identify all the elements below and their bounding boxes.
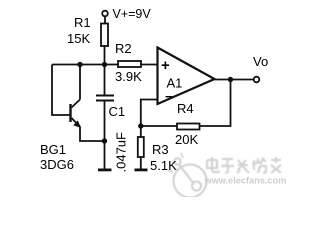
watermark text 电子发烧友: [207, 157, 281, 173]
wire: R4 to output: [200, 80, 231, 127]
svg-text:Vo: Vo: [253, 54, 268, 69]
svg-text:5.1K: 5.1K: [150, 158, 177, 173]
svg-text:R2: R2: [115, 41, 132, 56]
svg-text:www.elecfans.com: www.elecfans.com: [204, 176, 287, 186]
svg-text:−: −: [165, 89, 173, 104]
node: output junction: [228, 77, 233, 82]
wire: feedback run: [141, 125, 177, 127]
wire: left vertical to base: [52, 65, 70, 116]
svg-text:15K: 15K: [67, 31, 90, 46]
terminal Vo: [254, 77, 260, 83]
wire: R3 bottom lead: [140, 157, 142, 169]
wire: R1 bottom lead: [104, 46, 106, 65]
op-amp A1: [158, 48, 215, 105]
node: emitter/C1 junction: [102, 138, 107, 143]
ground (C1): [98, 169, 112, 172]
svg-text:3DG6: 3DG6: [40, 157, 74, 172]
terminal V+: [102, 11, 108, 17]
transistor Q1 BG1: [69, 65, 104, 142]
wire: main horizontal rail: [52, 64, 158, 66]
svg-text:R4: R4: [177, 101, 194, 116]
resistor R4: [177, 124, 200, 130]
resistor R1: [101, 24, 108, 47]
wire: inverting input: [141, 100, 158, 138]
node: R1/C1 junction: [102, 62, 107, 67]
wire: op-amp output: [215, 79, 254, 81]
svg-text:20K: 20K: [175, 132, 198, 147]
resistor R2: [118, 61, 141, 67]
wire: V+ lead: [104, 17, 106, 24]
svg-text:3.9K: 3.9K: [115, 69, 142, 84]
svg-text:V+=9V: V+=9V: [113, 7, 152, 21]
node: feedback junction: [138, 123, 143, 128]
svg-text:.047uF: .047uF: [114, 132, 129, 173]
resistor R3: [138, 137, 144, 157]
watermark logo circle: [168, 153, 207, 198]
svg-text:R1: R1: [74, 15, 91, 30]
svg-text:R3: R3: [152, 142, 169, 157]
svg-text:+: +: [161, 57, 170, 74]
ground (R3): [135, 169, 148, 172]
svg-text:C1: C1: [109, 104, 126, 119]
svg-text:BG1: BG1: [40, 142, 66, 157]
node: collector junction: [77, 62, 82, 67]
capacitor C1: [96, 65, 114, 169]
